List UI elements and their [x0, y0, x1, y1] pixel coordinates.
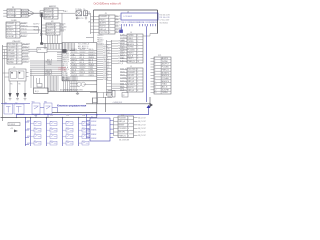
svg-text:R10 10k 0.1W: R10 10k 0.1W: [160, 14, 171, 16]
svg-text:T1/PB1: T1/PB1: [47, 64, 52, 66]
svg-text:E: E: [123, 22, 124, 24]
svg-text:PD3/INT1: PD3/INT1: [119, 117, 127, 119]
svg-text:P3.1/TXD: P3.1/TXD: [8, 44, 16, 46]
svg-text:P3.0/RXD: P3.0/RXD: [23, 43, 31, 45]
svg-text:RD/P3.7: RD/P3.7: [120, 46, 125, 48]
svg-text:4: 4: [53, 17, 54, 19]
button column 3: [62, 115, 73, 146]
svg-text:PD1: PD1: [50, 115, 53, 117]
diode D2: [40, 31, 42, 36]
wires XP1 left: [151, 58, 155, 92]
svg-text:JTAG-ISP: JTAG-ISP: [12, 40, 21, 43]
U1 pin names left: [63, 51, 71, 81]
wire bus bottom: [48, 90, 98, 92]
svg-text:PD3/INT1: PD3/INT1: [77, 90, 84, 92]
svg-text:4: 4: [55, 33, 56, 35]
svg-text:VCC+5: VCC+5: [8, 13, 14, 15]
svg-text:1: 1: [17, 44, 18, 46]
svg-text:1: 1: [53, 9, 54, 11]
svg-text:VD2 KD522: VD2 KD522: [160, 22, 169, 24]
svg-text:XTAL1: XTAL1: [128, 37, 133, 40]
svg-text:PA4/AD4: PA4/AD4: [47, 23, 54, 26]
wires to off-page: [112, 84, 124, 90]
svg-text:7: 7: [137, 87, 138, 89]
svg-text:WR/P3.6: WR/P3.6: [71, 59, 77, 61]
svg-text:PSEN_N: PSEN_N: [63, 61, 69, 63]
svg-text:GND: GND: [27, 121, 30, 123]
transistor VT1: [9, 81, 11, 93]
resistor network RN2: [106, 40, 108, 95]
svg-text:RESET: RESET: [33, 27, 38, 29]
svg-text:PB0/T0: PB0/T0: [97, 37, 102, 39]
svg-text:4: 4: [109, 26, 110, 28]
svg-text:T1/PB1: T1/PB1: [128, 35, 134, 37]
svg-text:D1: D1: [12, 7, 14, 9]
svg-text:GND_A: GND_A: [128, 89, 135, 92]
svg-text:P3.1/TXD: P3.1/TXD: [100, 32, 108, 34]
svg-text:T1/PB1: T1/PB1: [8, 10, 14, 12]
svg-text:SB17: SB17: [82, 133, 85, 135]
svg-text:GND: GND: [27, 143, 30, 145]
svg-text:1: 1: [55, 24, 56, 26]
capacitor C8: [93, 98, 98, 103]
wire section bottom-left: [86, 103, 150, 105]
svg-text:MOSI/P5: MOSI/P5: [63, 57, 69, 59]
svg-text:2: 2: [15, 13, 16, 15]
svg-text:PD3/INT1: PD3/INT1: [89, 54, 95, 56]
svg-text:KN5 BX: KN5 BX: [91, 138, 96, 140]
svg-text:VCC+5: VCC+5: [63, 63, 68, 65]
svg-text:R5: R5: [11, 84, 13, 86]
svg-text:KN3 BX: KN3 BX: [91, 130, 96, 132]
ground bottom: [77, 91, 79, 93]
svg-text:2: 2: [55, 27, 56, 29]
svg-text:7: 7: [154, 75, 155, 77]
svg-text:VCC+5: VCC+5: [116, 15, 121, 17]
svg-text:3: 3: [109, 23, 110, 25]
svg-text:1: 1: [15, 10, 16, 12]
svg-text:C5: C5: [88, 14, 90, 16]
svg-text:PD3/INT1: PD3/INT1: [71, 75, 78, 77]
svg-text:SCK/PB7: SCK/PB7: [80, 65, 86, 67]
svg-text:PSEN_N: PSEN_N: [21, 26, 28, 28]
svg-text:PD3/INT1: PD3/INT1: [120, 60, 126, 62]
svg-text:4: 4: [128, 128, 129, 130]
wire band left of U1: [40, 43, 62, 45]
ground: [76, 17, 78, 19]
svg-text:SB_C4 OUT: SB_C4 OUT: [138, 132, 146, 134]
net labels right MCU top: [97, 35, 104, 45]
svg-text:1: 1: [109, 16, 110, 18]
svg-text:PB0/T0: PB0/T0: [116, 19, 121, 21]
wires XS2 right: [134, 117, 146, 137]
svg-text:P3.0/RXD: P3.0/RXD: [119, 128, 128, 130]
wire left rail: [2, 45, 4, 121]
wire LCD E: [121, 26, 123, 29]
svg-text:5: 5: [17, 56, 18, 58]
svg-text:BQ1: BQ1: [35, 91, 39, 93]
svg-text:T1/PB1: T1/PB1: [63, 73, 68, 75]
svg-text:SB14: SB14: [66, 140, 69, 142]
svg-text:AD0_B: AD0_B: [128, 54, 134, 57]
wires J3 left: [93, 10, 95, 22]
svg-text:GND: GND: [27, 129, 30, 131]
svg-text:2: 2: [128, 121, 129, 123]
svg-text:RD/P3.7: RD/P3.7: [100, 26, 107, 28]
button column 2: [46, 115, 57, 146]
wires U3 to U1: [47, 35, 49, 44]
wires U5: [3, 72, 10, 74]
svg-text:T0/PB0: T0/PB0: [63, 75, 68, 77]
speaker LS1: [77, 82, 81, 86]
svg-text:PSEN_N: PSEN_N: [23, 61, 30, 63]
svg-text:2: 2: [53, 12, 54, 14]
svg-text:SB10: SB10: [50, 140, 53, 142]
svg-text:T1/PB1: T1/PB1: [128, 41, 134, 43]
svg-text:PB1/T1: PB1/T1: [116, 25, 121, 27]
wires U1 port3: [30, 59, 62, 76]
svg-text:SB_C2 OUT: SB_C2 OUT: [138, 125, 146, 127]
svg-text:4: 4: [16, 33, 17, 35]
svg-text:MISO/P6: MISO/P6: [23, 52, 30, 54]
svg-text:INT0/P2: INT0/P2: [103, 65, 109, 67]
svg-text:GND_A: GND_A: [8, 49, 15, 52]
svg-text:PD2: PD2: [66, 115, 69, 117]
svg-text:MISO/P6: MISO/P6: [47, 33, 54, 35]
svg-text:1: 1: [154, 58, 155, 60]
svg-text:MOSI/P5: MOSI/P5: [7, 30, 14, 32]
junction block: [62, 49, 66, 53]
svg-text:SCK/PB7: SCK/PB7: [120, 77, 126, 79]
svg-text:P3.1/TXD: P3.1/TXD: [63, 55, 71, 57]
svg-text:RESET: RESET: [103, 69, 108, 71]
svg-text:WR/P3.6: WR/P3.6: [97, 35, 103, 37]
svg-text:WR/P3.6: WR/P3.6: [89, 75, 95, 77]
svg-text:AD1_B: AD1_B: [162, 86, 168, 89]
svg-text:T1/PB1: T1/PB1: [89, 67, 94, 69]
svg-text:INT0/P2: INT0/P2: [45, 17, 52, 19]
svg-text:PB1/T1: PB1/T1: [128, 58, 134, 60]
net label blue: [119, 30, 123, 33]
svg-text:SB18: SB18: [82, 140, 85, 142]
svg-text:3: 3: [16, 30, 17, 32]
svg-text:KN4 BX: KN4 BX: [91, 134, 96, 136]
wire section divider 2: [1, 117, 97, 119]
blue wire left: [1, 103, 30, 105]
svg-text:ALE/PG: ALE/PG: [8, 58, 15, 61]
svg-text:MISO/P6: MISO/P6: [80, 49, 86, 51]
svg-text:ALE/PG: ALE/PG: [128, 43, 135, 46]
wire junction vertical: [96, 81, 98, 118]
svg-text:U1: U1: [88, 21, 90, 23]
net label box: [8, 123, 20, 126]
svg-text:13: 13: [154, 92, 156, 94]
svg-text:PD3: PD3: [82, 115, 85, 117]
svg-text:PB0/T0: PB0/T0: [61, 24, 66, 26]
svg-text:SCK/PB7: SCK/PB7: [162, 89, 170, 91]
svg-text:PSEN_N: PSEN_N: [162, 69, 170, 71]
svg-text:MISO/P6: MISO/P6: [23, 58, 30, 60]
svg-text:7: 7: [137, 52, 138, 54]
svg-text:1: 1: [137, 35, 138, 37]
svg-text:RN1: RN1: [38, 49, 41, 51]
svg-text:3: 3: [55, 30, 56, 32]
svg-text:3: 3: [137, 75, 138, 77]
LCD pins: [122, 24, 156, 26]
svg-text:12: 12: [154, 89, 156, 91]
svg-text:MOSI/P5: MOSI/P5: [162, 72, 169, 74]
svg-text:R11 10k 0.1W: R11 10k 0.1W: [160, 17, 170, 19]
svg-text:MISO/P6: MISO/P6: [46, 70, 53, 72]
svg-text:T1/PB1: T1/PB1: [103, 79, 108, 81]
svg-text:GND_A: GND_A: [128, 77, 135, 80]
svg-text:6: 6: [137, 84, 138, 86]
buzzer BA1: [34, 88, 49, 94]
net labels U1 top right: [78, 43, 90, 50]
blue wires SB: [40, 107, 44, 109]
wire to A-bus: [90, 13, 92, 34]
svg-text:PD3/INT1: PD3/INT1: [8, 56, 16, 58]
svg-text:4: 4: [154, 67, 155, 69]
svg-text:8: 8: [154, 78, 155, 80]
svg-text:7: 7: [17, 62, 18, 64]
resistor R1: [37, 48, 47, 53]
svg-text:AT89C51: AT89C51: [76, 17, 83, 20]
svg-text:P3.0/RXD: P3.0/RXD: [120, 49, 126, 51]
svg-text:SB15: SB15: [82, 120, 85, 122]
svg-text:Y1 8MHz: Y1 8MHz: [75, 9, 82, 11]
svg-text:4: 4: [137, 78, 138, 80]
svg-text:POWER: POWER: [9, 124, 16, 126]
svg-text:SB_C0 OUT: SB_C0 OUT: [138, 117, 146, 119]
svg-text:VCC+5: VCC+5: [7, 33, 13, 35]
wire top net: [94, 9, 158, 11]
svg-text:J-USB: J-USB: [11, 20, 17, 22]
net labels J3 right: [115, 15, 122, 33]
svg-text:U3: U3: [51, 21, 53, 23]
svg-text:P3.0/RXD: P3.0/RXD: [120, 37, 126, 39]
svg-text:PB1/T1: PB1/T1: [71, 62, 76, 64]
svg-text:PD3/INT1: PD3/INT1: [97, 44, 104, 46]
svg-text:PB1/T1: PB1/T1: [80, 75, 85, 77]
svg-text:RD/P3.7: RD/P3.7: [120, 80, 125, 82]
svg-text:5: 5: [16, 36, 17, 38]
wire to buzzer: [30, 69, 32, 88]
svg-text:T0/PB0: T0/PB0: [162, 61, 168, 63]
svg-text:2: 2: [154, 61, 155, 63]
svg-text:T1/PB1: T1/PB1: [89, 70, 94, 72]
svg-text:2: 2: [137, 38, 138, 40]
svg-text:R6: R6: [19, 84, 21, 86]
svg-text:T1/PB1: T1/PB1: [80, 59, 85, 61]
wires U1 right pins: [97, 45, 111, 82]
svg-text:T1/PB1: T1/PB1: [23, 55, 28, 57]
svg-text:OrCAD/Demo edition v9: OrCAD/Demo edition v9: [94, 1, 122, 5]
svg-text:2: 2: [16, 26, 17, 28]
blue rail bottom-left: [24, 118, 26, 146]
U1 right rail: [96, 43, 98, 81]
blue wire K down: [16, 114, 18, 118]
svg-text:WR/P3.6: WR/P3.6: [63, 59, 69, 61]
svg-text:PB0/T0: PB0/T0: [7, 26, 13, 28]
svg-text:T1/PB1: T1/PB1: [162, 92, 168, 94]
wires down to matrix: [48, 76, 59, 91]
svg-text:6: 6: [17, 59, 18, 61]
svg-text:MISO/P6: MISO/P6: [162, 81, 169, 83]
svg-text:6: 6: [109, 32, 110, 34]
svg-text:11: 11: [154, 87, 156, 89]
U1 bottom rail: [62, 80, 97, 82]
transistor VT2: [17, 81, 19, 93]
svg-text:RESET: RESET: [120, 43, 125, 45]
blue long wire: [17, 114, 149, 116]
svg-text:PD3/INT1: PD3/INT1: [45, 74, 52, 76]
svg-text:2: 2: [137, 72, 138, 74]
svg-text:MISO/P6: MISO/P6: [71, 67, 77, 69]
svg-text:1: 1: [128, 117, 129, 119]
LCD pin names: [121, 22, 157, 24]
svg-text:SCK/PB7: SCK/PB7: [80, 52, 86, 54]
svg-text:INT0/P2: INT0/P2: [21, 32, 27, 34]
svg-text:P3.1/TXD: P3.1/TXD: [59, 69, 67, 71]
svg-text:SCK/PB7: SCK/PB7: [7, 36, 15, 38]
net labels J2: [22, 44, 29, 46]
svg-text:4: 4: [17, 53, 18, 55]
svg-text:P3.0/RXD: P3.0/RXD: [8, 47, 17, 49]
svg-text:C7 0.1u x16V: C7 0.1u x16V: [160, 20, 171, 22]
svg-text:1: 1: [16, 23, 17, 25]
svg-text:T1/PB1: T1/PB1: [116, 22, 121, 24]
svg-text:5: 5: [154, 69, 155, 71]
svg-text:MAX232: MAX232: [49, 5, 56, 8]
U1 left rail: [61, 43, 63, 81]
svg-text:PC2/A10: PC2/A10: [8, 52, 15, 55]
svg-text:D1: D1: [155, 22, 157, 24]
svg-text:RD/P3.7: RD/P3.7: [103, 75, 109, 77]
net labels J1: [20, 23, 27, 25]
svg-text:PSEN_N: PSEN_N: [120, 83, 126, 85]
svg-text:MOSI/P5: MOSI/P5: [89, 72, 95, 74]
svg-text:⌐ DATA_BUS: ⌐ DATA_BUS: [112, 101, 123, 104]
svg-text:SB_COM LINE: SB_COM LINE: [119, 140, 129, 142]
svg-text:T0/PB0: T0/PB0: [63, 51, 68, 53]
svg-text:3: 3: [137, 41, 138, 43]
svg-text:5: 5: [137, 81, 138, 83]
svg-text:10: 10: [137, 61, 139, 63]
svg-text:2: 2: [109, 19, 110, 21]
svg-text:RESET: RESET: [119, 125, 126, 127]
wires J4 left: [120, 33, 127, 62]
component X2: [122, 93, 128, 98]
svg-text:PD3/INT1: PD3/INT1: [7, 23, 15, 25]
svg-text:PSEN_N: PSEN_N: [23, 46, 30, 48]
svg-text:5: 5: [128, 132, 129, 134]
svg-text:P3.1/TXD: P3.1/TXD: [71, 52, 77, 54]
svg-text:3: 3: [128, 125, 129, 127]
IC U6: [108, 91, 115, 98]
svg-text:INT0/P2: INT0/P2: [119, 132, 126, 134]
wire bus vertical: [41, 13, 43, 43]
svg-text:X2: X2: [123, 95, 125, 97]
svg-text:PSEN_N: PSEN_N: [46, 72, 53, 74]
capacitor C1 C2: [84, 11, 88, 16]
svg-text:T0/PB0: T0/PB0: [120, 40, 125, 42]
svg-text:6: 6: [137, 50, 138, 52]
svg-text:1: 1: [137, 69, 138, 71]
svg-text:P3.0/RXD: P3.0/RXD: [47, 27, 56, 29]
svg-text:4: 4: [137, 44, 138, 46]
svg-text:SB_C1 OUT: SB_C1 OUT: [138, 121, 146, 123]
svg-text:ALE/PG: ALE/PG: [100, 22, 107, 25]
svg-text:GND_A: GND_A: [128, 80, 135, 83]
button column 1: [30, 115, 41, 146]
off-page arrow dark: [149, 97, 151, 104]
wire XTAL: [62, 12, 75, 14]
svg-text:A15/PC7: A15/PC7: [162, 63, 169, 66]
svg-text:RESET: RESET: [61, 30, 66, 32]
U1 bottom hatch: [63, 76, 77, 81]
svg-text:PB0/T0: PB0/T0: [128, 52, 134, 54]
svg-text:SB12: SB12: [66, 127, 69, 129]
svg-text:T0/PB0: T0/PB0: [80, 70, 85, 72]
wires into U1 top: [63, 43, 75, 50]
blue data bus: [146, 26, 148, 102]
svg-text:ALE/PG: ALE/PG: [162, 57, 169, 60]
svg-text:J3: J3: [105, 13, 107, 15]
wires U1 upper left stubs: [57, 53, 62, 61]
svg-text:10: 10: [154, 84, 156, 86]
wire D1 merge: [28, 10, 33, 12]
svg-text:WR/P3.6: WR/P3.6: [45, 15, 52, 17]
svg-text:5: 5: [109, 29, 110, 31]
svg-text:GND_A: GND_A: [119, 120, 126, 123]
wires XS2 left: [113, 118, 115, 136]
wires lower right: [90, 92, 112, 94]
button column 4: [78, 115, 89, 146]
svg-text:8: 8: [137, 90, 138, 92]
svg-text:9: 9: [154, 81, 155, 83]
svg-text:MOSI/P5: MOSI/P5: [21, 22, 28, 24]
svg-text:VCC+5: VCC+5: [120, 52, 125, 54]
svg-text:3: 3: [154, 64, 155, 66]
svg-text:3: 3: [15, 16, 16, 18]
svg-text:22p: 22p: [83, 9, 86, 11]
svg-text:PB0/T0: PB0/T0: [120, 74, 125, 76]
svg-text:SCK/PB7: SCK/PB7: [80, 67, 86, 69]
svg-text:MOSI/P5: MOSI/P5: [128, 84, 135, 86]
wires into U1 from U3: [44, 44, 60, 50]
svg-text:PD3/INT1: PD3/INT1: [45, 12, 53, 14]
wires J5 left: [120, 68, 127, 91]
svg-text:PB0/T0: PB0/T0: [120, 71, 125, 73]
svg-text:MISO/P6: MISO/P6: [162, 75, 169, 77]
svg-text:PB0/T0: PB0/T0: [97, 42, 102, 44]
svg-text:PSEN_N: PSEN_N: [120, 68, 126, 70]
svg-text:PSEN_N: PSEN_N: [80, 72, 86, 74]
svg-text:PC2/A10: PC2/A10: [128, 49, 135, 52]
svg-text:2: 2: [17, 47, 18, 49]
svg-text:SB_C5 OUT: SB_C5 OUT: [138, 135, 146, 137]
svg-text:SB11: SB11: [66, 120, 69, 122]
svg-text:PB0/T0: PB0/T0: [100, 19, 106, 21]
svg-text:3: 3: [17, 50, 18, 52]
svg-text:6: 6: [128, 135, 129, 137]
svg-text:SB_C3 OUT: SB_C3 OUT: [138, 128, 146, 130]
svg-text:PB1/T1: PB1/T1: [47, 30, 53, 32]
svg-text:PB1/T1: PB1/T1: [71, 72, 76, 74]
U1 inner wires to right bus: [70, 48, 97, 77]
svg-text:8: 8: [137, 55, 138, 57]
